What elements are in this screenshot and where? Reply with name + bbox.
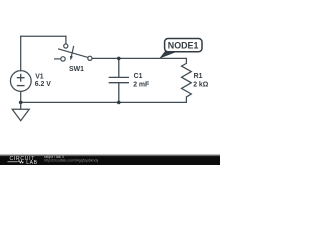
junction dot at V1/ground — [19, 101, 23, 105]
svg-text:V1: V1 — [35, 73, 44, 80]
svg-text:SW1: SW1 — [69, 66, 84, 73]
svg-text:NODE1: NODE1 — [168, 40, 199, 50]
SW1 throw terminal (top) — [64, 44, 68, 48]
watermark bar — [0, 154, 220, 157]
SW1 unconnected throw stub — [54, 58, 61, 60]
ground — [12, 102, 29, 120]
C1 top plate — [109, 76, 129, 78]
SW1 actuator arrow — [71, 46, 73, 57]
NODE1 flag bubble — [165, 39, 202, 52]
svg-text:http:∕∕circuitlab.com∕94gq5qu6: http:∕∕circuitlab.com∕94gq5qu6kndy — [44, 158, 99, 162]
SW1 blade — [58, 49, 88, 58]
NODE1 flag tail — [159, 49, 177, 58]
svg-text:2 mF: 2 mF — [133, 82, 149, 89]
C1 bottom plate — [109, 82, 129, 84]
wire drop into switch top terminal — [65, 36, 67, 44]
C1 top lead — [118, 58, 120, 77]
CircuitLab logo — [8, 156, 38, 166]
switch SW1 — [54, 44, 92, 61]
voltage source V1 — [10, 71, 31, 103]
wire bottom rail — [21, 101, 187, 103]
junction dot at C1 top — [117, 57, 121, 61]
SW1 common terminal — [88, 56, 92, 60]
svg-text:6.2 V: 6.2 V — [35, 81, 51, 88]
junction dot at C1 bottom — [117, 101, 121, 105]
svg-text:2 kΩ: 2 kΩ — [193, 81, 209, 88]
wire from switch common to top-right corner — [92, 57, 186, 59]
SW1 unconnected throw terminal — [61, 57, 65, 61]
V1 plus sign — [17, 74, 25, 86]
svg-text:C1: C1 — [134, 73, 143, 80]
svg-text:R1: R1 — [194, 73, 203, 80]
resistor R1 — [182, 58, 192, 102]
wire left rail from V1 top to top-left corner — [20, 36, 22, 70]
wire V1 bottom to ground node — [20, 91, 22, 102]
svg-text:LAB: LAB — [26, 160, 37, 165]
wire top rail — [21, 35, 66, 37]
capacitor C1 — [109, 58, 129, 102]
C1 bottom lead — [118, 83, 120, 103]
V1 minus sign — [17, 85, 25, 87]
